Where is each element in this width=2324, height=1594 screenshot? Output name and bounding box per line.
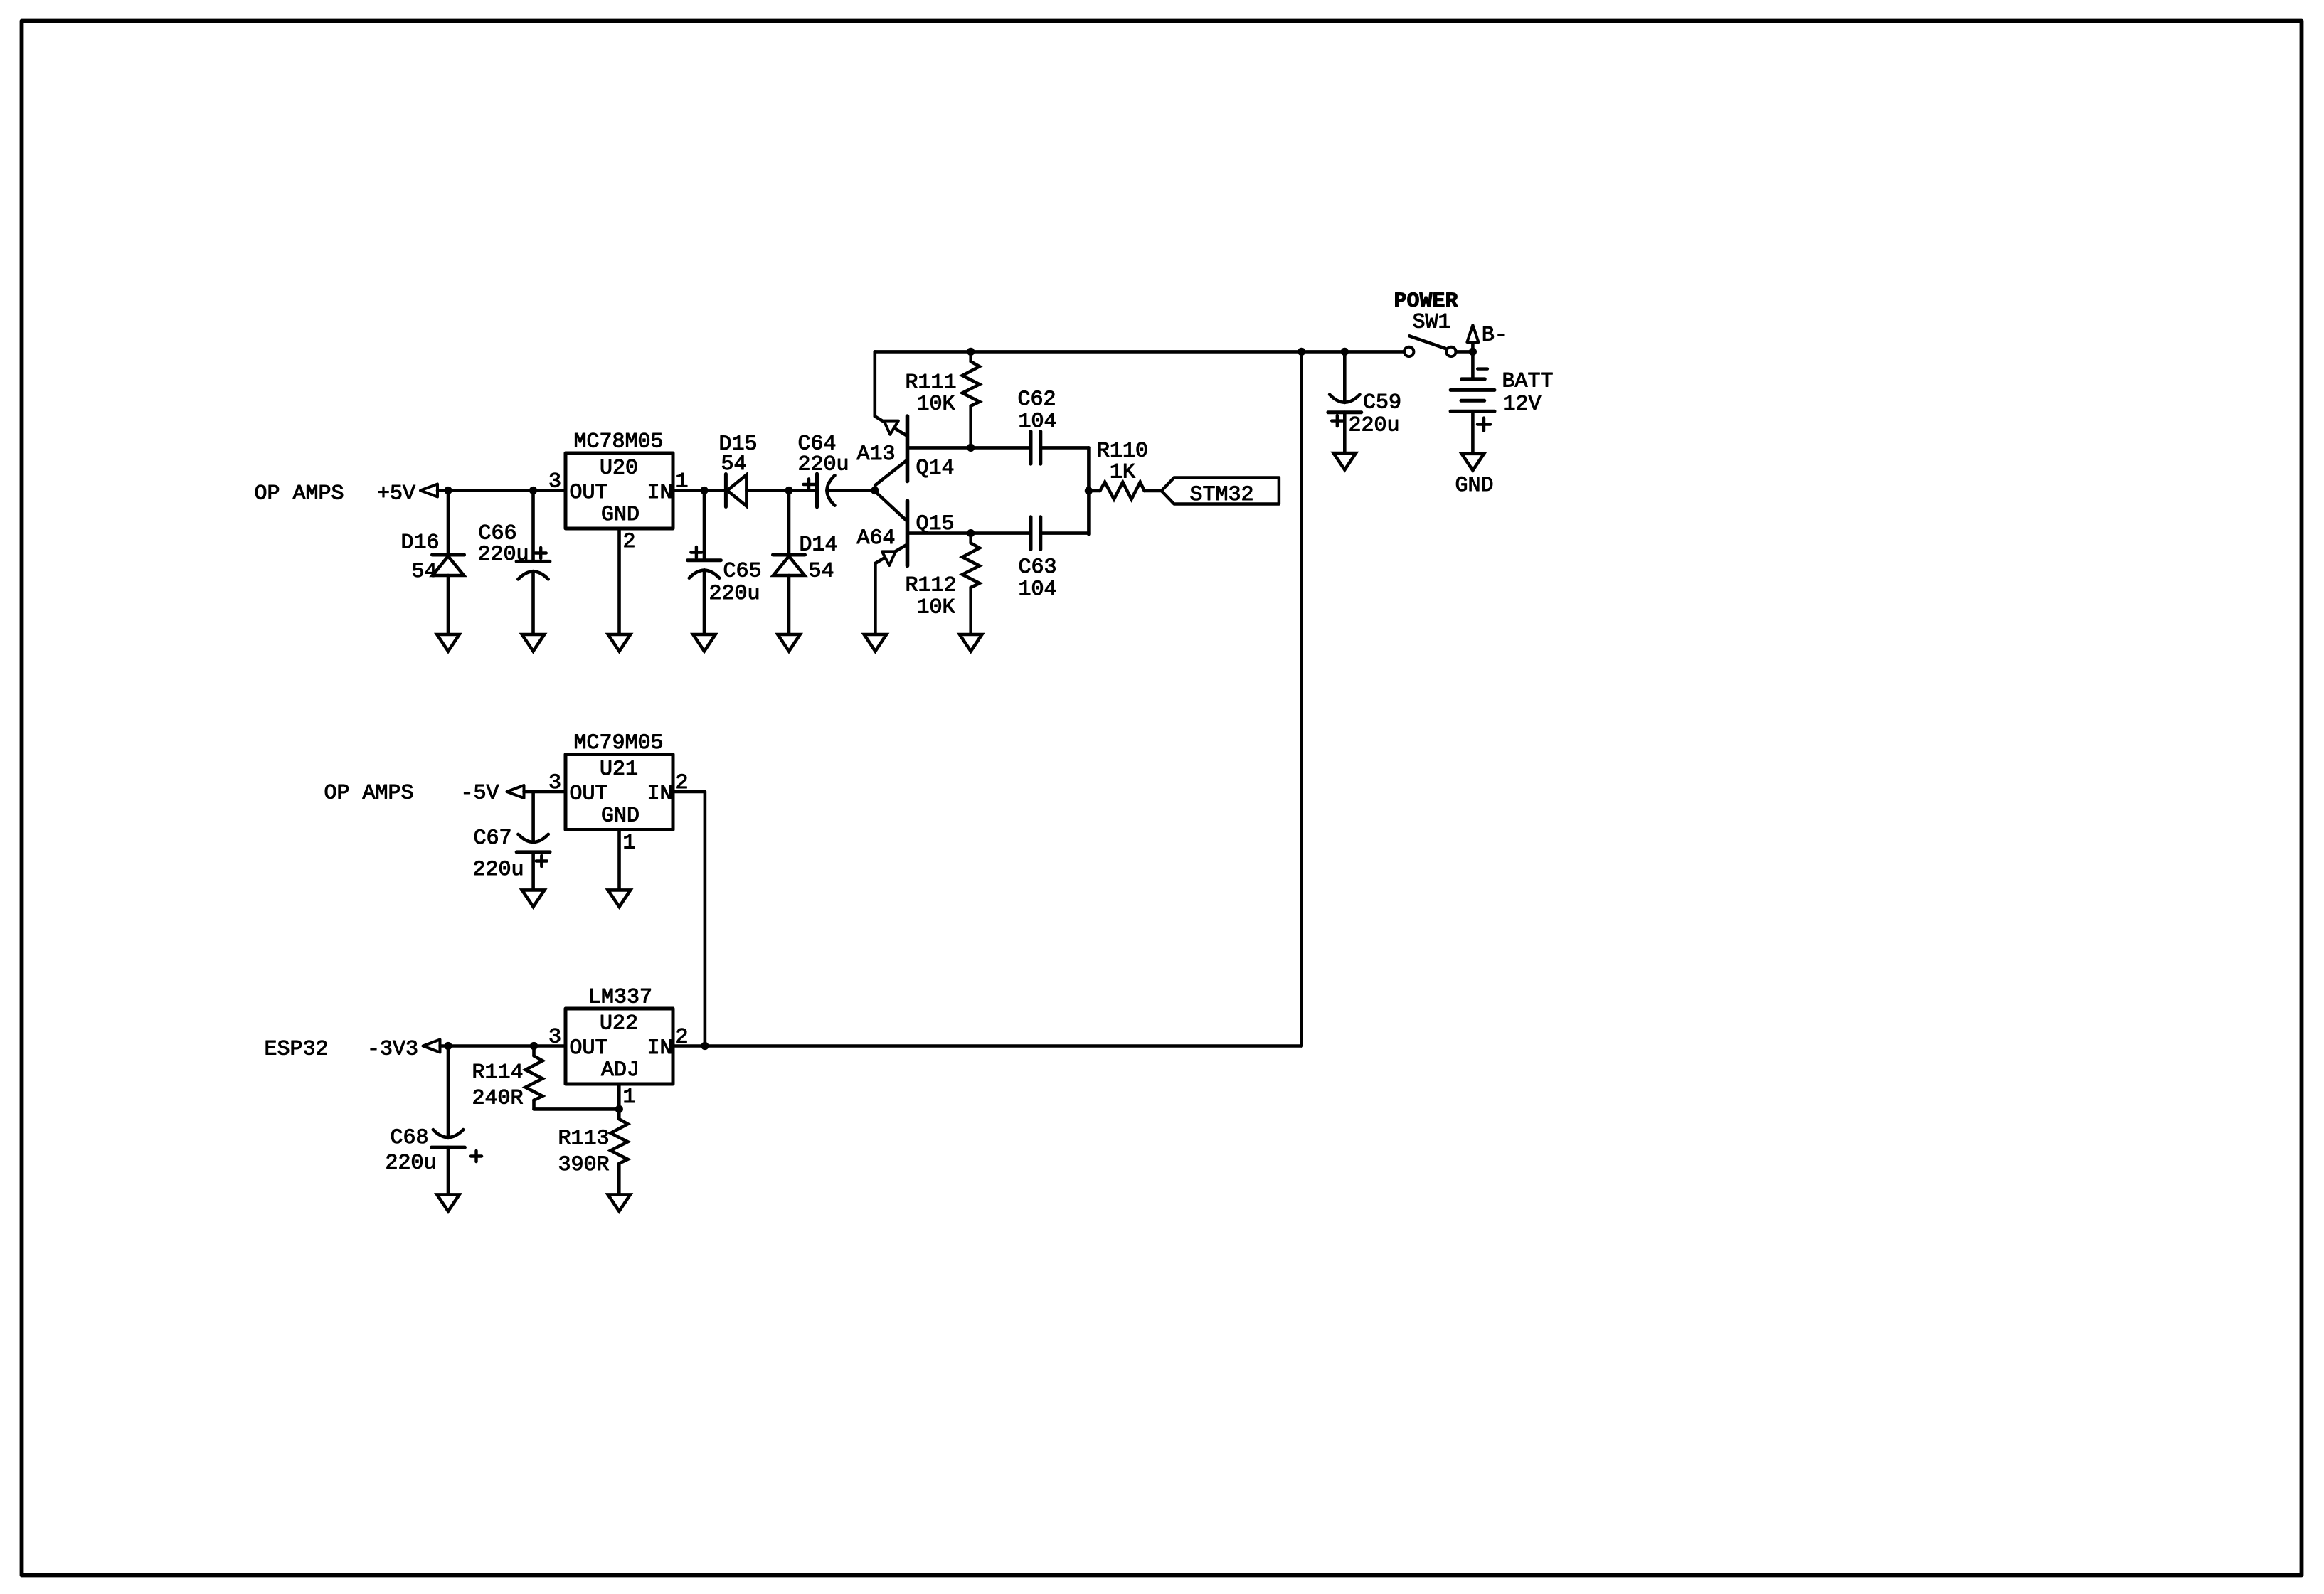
svg-text:3: 3	[548, 771, 561, 795]
capacitor C59 branch wire	[1343, 351, 1347, 403]
capacitor C67	[516, 850, 550, 854]
node R112 top junction	[967, 529, 975, 537]
capacitor C59	[1328, 410, 1362, 414]
transistor Q15 collector	[875, 492, 908, 522]
node D14 junction	[785, 487, 792, 494]
wire U21 IN down	[704, 792, 707, 1046]
wire R111 bottom lead	[969, 406, 972, 448]
ground (R113)	[608, 1194, 630, 1211]
svg-text:MC79M05: MC79M05	[574, 731, 664, 755]
diode D15	[724, 474, 728, 507]
svg-text:C62: C62	[1018, 388, 1056, 412]
pin B- triangle	[1467, 325, 1478, 342]
svg-text:54: 54	[721, 452, 747, 477]
minus sign (BATT)	[1477, 367, 1487, 370]
wire R113 bottom lead	[617, 1164, 621, 1195]
capacitor C67 branch wire	[531, 792, 535, 842]
svg-text:1: 1	[623, 831, 636, 856]
wire U22 ADJ pin	[617, 1084, 621, 1109]
plus sign (BATT)	[1477, 418, 1490, 431]
switch SW1 lever	[1409, 336, 1445, 349]
ground (U20)	[608, 634, 630, 652]
pin arrow -3V3	[423, 1040, 440, 1053]
wire C65 to ground	[703, 570, 706, 634]
wire Q14 base lead	[909, 446, 1031, 450]
ground (C68)	[437, 1194, 459, 1211]
svg-text:ADJ: ADJ	[601, 1058, 640, 1083]
node R111 top junction	[967, 348, 975, 356]
wire R112 bottom lead	[969, 588, 972, 634]
resistor R114	[526, 1056, 543, 1100]
diode D16	[433, 553, 465, 557]
transistor Q14 emitter	[875, 416, 908, 436]
node C66 junction	[529, 487, 537, 494]
wire C59 to ground	[1343, 413, 1347, 453]
svg-text:OP AMPS: OP AMPS	[324, 782, 414, 806]
wire R112 top lead	[969, 533, 972, 543]
svg-text:390R: 390R	[558, 1153, 610, 1177]
svg-text:54: 54	[809, 560, 834, 584]
svg-text:MC78M05: MC78M05	[574, 430, 664, 455]
transistor Q15 emitter arrow	[882, 551, 896, 565]
wire R111 top lead	[969, 351, 972, 361]
net tag STM32	[1162, 478, 1279, 504]
wire U20 IN to D15	[673, 489, 726, 492]
svg-text:BATT: BATT	[1502, 370, 1554, 394]
svg-text:R113: R113	[558, 1127, 610, 1151]
svg-text:R110: R110	[1097, 440, 1148, 464]
svg-text:10K: 10K	[917, 596, 955, 620]
wire U21 IN right	[673, 790, 705, 794]
svg-text:ESP32: ESP32	[265, 1038, 329, 1062]
ground (D14)	[778, 634, 800, 652]
svg-text:GND: GND	[1455, 474, 1494, 498]
svg-text:R112: R112	[906, 574, 957, 598]
node ADJ junction	[615, 1105, 623, 1113]
wire R110 right lead	[1145, 489, 1162, 493]
wire top rail	[875, 350, 1404, 354]
diode D14	[773, 553, 805, 557]
svg-text:3: 3	[548, 1026, 561, 1050]
svg-text:D16: D16	[401, 531, 440, 556]
wire U22 IN to long vertical	[673, 1044, 1302, 1048]
regulator U21 box	[566, 755, 673, 830]
svg-text:C65: C65	[723, 560, 762, 584]
node R111 bottom junction	[967, 444, 975, 452]
capacitor C68	[432, 1146, 465, 1149]
wire switch to battery	[1456, 350, 1473, 354]
svg-text:D14: D14	[800, 533, 838, 558]
transistor Q15 base bar	[906, 501, 910, 566]
capacitor C62	[1029, 432, 1033, 464]
wire long vertical to -3V3 IN	[1300, 351, 1303, 1046]
svg-text:A13: A13	[857, 442, 896, 467]
wire C62/C63 vertical	[1087, 447, 1091, 534]
ground (C65)	[693, 634, 715, 652]
wire R114 to ADJ node	[534, 1107, 620, 1111]
wire C62 to corner	[1041, 446, 1089, 450]
transistor Q14 emitter arrow	[884, 421, 898, 435]
wire Q15 base lead	[909, 531, 1031, 535]
regulator U20 box	[566, 453, 673, 528]
svg-text:C63: C63	[1019, 556, 1057, 580]
svg-text:R111: R111	[906, 371, 957, 395]
plus sign (C64)	[803, 479, 814, 489]
wire Q14 emitter to top rail	[874, 351, 877, 416]
svg-text:Q14: Q14	[916, 457, 955, 481]
capacitor C63	[1029, 517, 1033, 550]
svg-text:C68: C68	[391, 1126, 429, 1150]
svg-text:C67: C67	[474, 827, 512, 851]
plus sign (C65)	[691, 547, 701, 558]
battery BATT plate 2	[1450, 388, 1495, 392]
ground (C67)	[522, 890, 544, 907]
plus sign (C59)	[1332, 415, 1342, 426]
svg-text:U22: U22	[600, 1012, 638, 1036]
svg-text:104: 104	[1019, 578, 1057, 602]
svg-text:OUT: OUT	[570, 782, 608, 807]
svg-text:1K: 1K	[1110, 461, 1135, 485]
capacitor C68 branch wire	[447, 1046, 450, 1139]
svg-text:STM32: STM32	[1190, 483, 1254, 507]
svg-text:GND: GND	[601, 804, 640, 829]
wire C67 to ground	[531, 852, 535, 891]
svg-text:B-: B-	[1482, 324, 1507, 348]
transistor Q15 emitter	[875, 544, 907, 563]
node long-vertical junction	[1298, 348, 1305, 356]
transistor Q14 collector	[875, 460, 907, 491]
svg-text:220u: 220u	[798, 453, 849, 477]
resistor R112	[962, 543, 980, 588]
wire U21 GND to ground	[617, 830, 621, 891]
svg-text:R114: R114	[472, 1061, 524, 1085]
wire D14 to ground	[787, 575, 791, 634]
wire D16 to ground	[447, 575, 450, 634]
svg-text:10K: 10K	[917, 393, 955, 417]
svg-text:C59: C59	[1363, 391, 1401, 415]
svg-text:220u: 220u	[478, 543, 529, 567]
wire R110 left lead	[1088, 489, 1100, 493]
ground (R112)	[960, 634, 982, 652]
wire U20 GND to ground	[617, 528, 621, 634]
capacitor C65	[688, 558, 721, 562]
node D16 junction	[444, 487, 452, 494]
wire R114 top lead	[532, 1046, 536, 1056]
svg-text:-3V3: -3V3	[367, 1038, 418, 1062]
svg-text:A64: A64	[857, 526, 896, 551]
svg-text:IN: IN	[647, 1036, 673, 1061]
resistor R111	[962, 361, 980, 405]
svg-text:+5V: +5V	[377, 482, 415, 506]
svg-text:U21: U21	[600, 758, 638, 782]
svg-text:220u: 220u	[473, 858, 524, 882]
wire battery bottom	[1471, 411, 1475, 454]
node battery junction	[1469, 348, 1477, 356]
pin B- stem	[1471, 342, 1475, 351]
svg-text:2: 2	[623, 530, 636, 554]
wire -5V rail	[524, 790, 566, 794]
svg-text:-5V: -5V	[461, 782, 499, 806]
svg-text:12V: 12V	[1503, 393, 1542, 417]
ground (Q15 emitter)	[864, 634, 886, 652]
battery BATT plate 4	[1450, 410, 1495, 413]
switch SW1 left contact	[1404, 347, 1413, 356]
svg-text:220u: 220u	[1349, 414, 1400, 438]
switch SW1 right contact	[1446, 347, 1455, 356]
diode D16 branch wire	[447, 491, 450, 556]
svg-text:IN: IN	[647, 782, 673, 807]
wire -3V3 rail	[440, 1044, 566, 1048]
wire C68 to ground	[447, 1147, 450, 1194]
wire battery top	[1471, 351, 1475, 379]
wire R113 top lead	[617, 1109, 621, 1119]
wire C63 to corner	[1041, 531, 1089, 535]
svg-text:LM337: LM337	[588, 986, 652, 1010]
node R114 junction	[530, 1042, 538, 1050]
node U21-IN junction on -3V3 IN net	[701, 1042, 709, 1050]
svg-text:54: 54	[412, 560, 437, 584]
svg-text:OUT: OUT	[570, 481, 608, 505]
ground (D16)	[437, 634, 459, 652]
resistor R113	[611, 1119, 628, 1163]
node R110 junction	[1085, 487, 1093, 494]
wire C64 to base node	[827, 489, 875, 492]
svg-text:OP AMPS: OP AMPS	[255, 482, 344, 506]
svg-text:IN: IN	[647, 481, 673, 505]
capacitor C66	[516, 560, 550, 563]
capacitor C64	[815, 474, 819, 507]
wire +5V rail left	[437, 489, 566, 492]
svg-text:GND: GND	[601, 503, 640, 527]
capacitor C66 branch wire	[531, 491, 535, 562]
wire D15 to C64	[746, 489, 817, 492]
node C68 junction	[444, 1042, 452, 1050]
plus sign (C68)	[471, 1151, 482, 1162]
ground (C59)	[1334, 453, 1356, 470]
ground (battery)	[1462, 454, 1484, 471]
resistor R110	[1100, 482, 1144, 499]
ground (U21)	[608, 890, 630, 907]
transistor Q14 base bar	[906, 416, 910, 482]
battery BATT plate 3	[1461, 399, 1485, 403]
svg-text:SW1: SW1	[1413, 311, 1451, 335]
wire Q15 emitter to ground	[874, 563, 877, 634]
wire C66 to ground	[531, 571, 535, 634]
node C65 junction	[700, 487, 708, 494]
battery BATT plate 1	[1462, 377, 1485, 381]
svg-text:240R: 240R	[472, 1087, 524, 1111]
regulator U22 box	[566, 1009, 673, 1084]
svg-text:OUT: OUT	[570, 1036, 608, 1061]
plus sign (C66)	[536, 548, 546, 558]
plus sign (C67)	[536, 856, 547, 866]
node C59 junction	[1341, 348, 1349, 356]
svg-text:U20: U20	[600, 457, 638, 481]
wire R114 bottom lead	[532, 1100, 536, 1110]
ground (C66)	[522, 634, 544, 652]
svg-text:220u: 220u	[709, 582, 760, 606]
svg-text:3: 3	[548, 470, 561, 494]
pin arrow -5V	[507, 785, 524, 798]
node transistor base junction	[871, 487, 879, 494]
pin arrow +5V	[420, 484, 437, 497]
capacitor C65 branch wire	[703, 491, 706, 560]
svg-text:1: 1	[623, 1085, 636, 1110]
svg-text:220u: 220u	[386, 1152, 437, 1176]
diode D14 branch wire	[787, 491, 791, 556]
svg-text:104: 104	[1019, 410, 1057, 434]
